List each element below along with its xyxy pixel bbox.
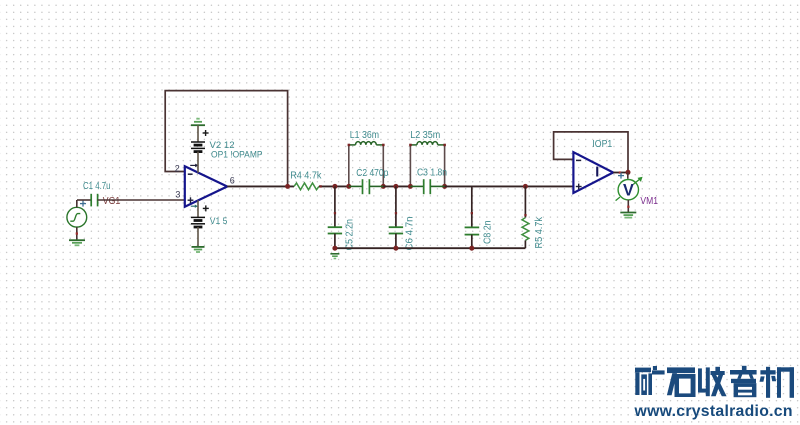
capacitor C8 branch wire upper: [471, 186, 473, 227]
node L1 right junction: [381, 184, 386, 189]
OP1 non-inverting input mark: [188, 197, 194, 203]
wire V2 to OP1: [197, 152, 199, 173]
node C6 branch junction: [393, 184, 398, 189]
wire R4 to node A: [319, 185, 349, 187]
VM1 lower terminal tick: [627, 206, 629, 208]
capacitor C6 branch wire lower: [395, 234, 397, 249]
capacitor C6 branch wire upper: [395, 186, 397, 226]
capacitor C6: [389, 227, 403, 233]
svg-text:V: V: [623, 182, 634, 200]
OP1 top supply pin arrow: [190, 164, 198, 168]
svg-text:C6 4.7n: C6 4.7n: [405, 217, 416, 251]
OP1 bottom supply pin arrow: [191, 205, 198, 208]
wire L2 right to IOP1 input: [445, 185, 574, 187]
svg-text:L1 36m: L1 36m: [350, 130, 379, 141]
wire OP1 output: [227, 185, 294, 187]
inductor L2 loop left wire: [409, 145, 411, 187]
svg-text:IOP1: IOP1: [592, 139, 612, 150]
resistor R5: [522, 218, 529, 241]
IOP1 ideal marking I: [596, 167, 598, 177]
voltage generator VG1: [67, 207, 87, 227]
C8 terminal tick: [471, 212, 473, 214]
inductor L1: [349, 142, 384, 145]
ground below VG1: [69, 240, 85, 245]
wire bottom rail: [335, 247, 526, 249]
R4 terminal tick: [319, 185, 321, 187]
wire ground to V2: [197, 125, 199, 142]
ground below rail: [330, 254, 339, 259]
C5 terminal tick: [334, 212, 336, 214]
inductor L1 loop right wire: [382, 145, 384, 187]
wire VG1 to C1: [77, 199, 91, 201]
char shi: [667, 367, 695, 373]
wire V1 to ground: [197, 227, 199, 247]
VG1 plus terminal mark: [80, 201, 86, 207]
L1 terminal ticks: [348, 144, 351, 147]
svg-text:L2 35m: L2 35m: [410, 130, 440, 141]
capacitor C8 branch wire lower: [471, 235, 473, 249]
node R5 branch junction: [523, 184, 528, 189]
battery V1 plus mark: [203, 205, 209, 211]
node rail C6 junction: [393, 246, 398, 251]
wire L1 right to L2 left: [383, 185, 410, 187]
watermark CJK title (drawn strokes): [635, 366, 794, 398]
svg-text:C8 2n: C8 2n: [483, 221, 494, 245]
svg-text:3: 3: [175, 190, 180, 200]
svg-text:R4 4.7k: R4 4.7k: [290, 171, 322, 182]
svg-text:V1 5: V1 5: [210, 216, 228, 227]
wire voltmeter to ground: [627, 200, 629, 212]
wire IOP1 feedback loop: [554, 132, 628, 172]
wire VG1 top stem: [76, 200, 78, 207]
svg-text:VG1: VG1: [103, 196, 121, 207]
resistor R5 branch wire upper: [524, 186, 526, 217]
svg-text:6: 6: [230, 176, 235, 186]
capacitor C3 left lead: [410, 185, 423, 187]
svg-text:VM1: VM1: [640, 196, 658, 207]
resistor R5 lower lead: [524, 240, 526, 248]
capacitor C5: [328, 227, 342, 233]
OP1 inverting input mark: [188, 173, 193, 175]
wire OP1 feedback loop: [165, 91, 287, 187]
wire VG1 bottom stem: [76, 227, 78, 240]
wire OP1 to V1: [197, 200, 199, 217]
capacitor C5 branch wire upper: [334, 186, 336, 226]
node L2 left junction: [408, 184, 413, 189]
wire output to voltmeter: [627, 173, 629, 179]
op-amp IOP1: [573, 152, 613, 193]
ground above V2 (inverted): [191, 119, 205, 126]
node L2 right junction: [442, 184, 447, 189]
node IOP1 output junction: [626, 170, 631, 175]
wire C1 to op-amp pin 3: [98, 199, 185, 201]
char shou: [698, 368, 702, 389]
capacitor C3 right lead: [431, 185, 445, 187]
char ji: [760, 370, 775, 374]
capacitor C5 branch wire lower: [334, 234, 336, 249]
battery V2: [191, 142, 205, 152]
ground below V1: [192, 247, 205, 252]
char kuang: [635, 368, 651, 373]
capacitor C2 right lead: [370, 185, 384, 187]
VM1 arrow: [616, 177, 643, 201]
IOP1 inverting input mark: [576, 159, 581, 161]
svg-text:C2 470p: C2 470p: [356, 168, 388, 179]
op-amp OP1: [185, 166, 227, 206]
battery V2 plus mark: [203, 130, 209, 136]
char yin: [742, 366, 747, 371]
inductor L2 loop right wire: [444, 145, 446, 187]
VG1 lower terminal tick: [76, 232, 78, 234]
IOP1 non-inverting input mark: [576, 184, 582, 190]
ground below VM1: [620, 213, 636, 218]
resistor R4: [294, 183, 319, 190]
inductor L2: [410, 142, 444, 145]
node rail C5 junction: [332, 246, 337, 251]
capacitor C8: [465, 227, 480, 234]
capacitor C2: [363, 179, 370, 194]
capacitor C2 left lead: [349, 185, 362, 187]
battery V1: [191, 217, 205, 227]
wire IOP1 output: [613, 172, 628, 174]
capacitor C3: [424, 179, 431, 194]
VM1 plus mark: [618, 173, 624, 179]
svg-text:R5 4.7k: R5 4.7k: [534, 216, 545, 248]
node A junction (C5 branch): [332, 184, 337, 189]
voltmeter VM1: [618, 180, 638, 200]
node output junction: [285, 184, 290, 189]
svg-text:www.crystalradio.cn: www.crystalradio.cn: [634, 403, 793, 420]
L2 terminal ticks: [409, 144, 412, 147]
inductor L1 loop left wire: [348, 145, 350, 187]
node rail C8 junction: [469, 246, 474, 251]
IOP1 output terminal tick: [619, 171, 621, 173]
svg-text:2: 2: [175, 163, 180, 173]
svg-text:C1 4.7u: C1 4.7u: [83, 181, 111, 192]
R5 terminal tick: [524, 214, 526, 216]
svg-text:C3 1.8n: C3 1.8n: [417, 167, 447, 178]
capacitor C1: [91, 194, 97, 207]
C6 terminal tick: [395, 212, 397, 214]
node L1 left junction: [346, 184, 351, 189]
svg-text:OP1 !OPAMP: OP1 !OPAMP: [211, 149, 263, 160]
svg-text:C5 2.2n: C5 2.2n: [345, 219, 356, 251]
